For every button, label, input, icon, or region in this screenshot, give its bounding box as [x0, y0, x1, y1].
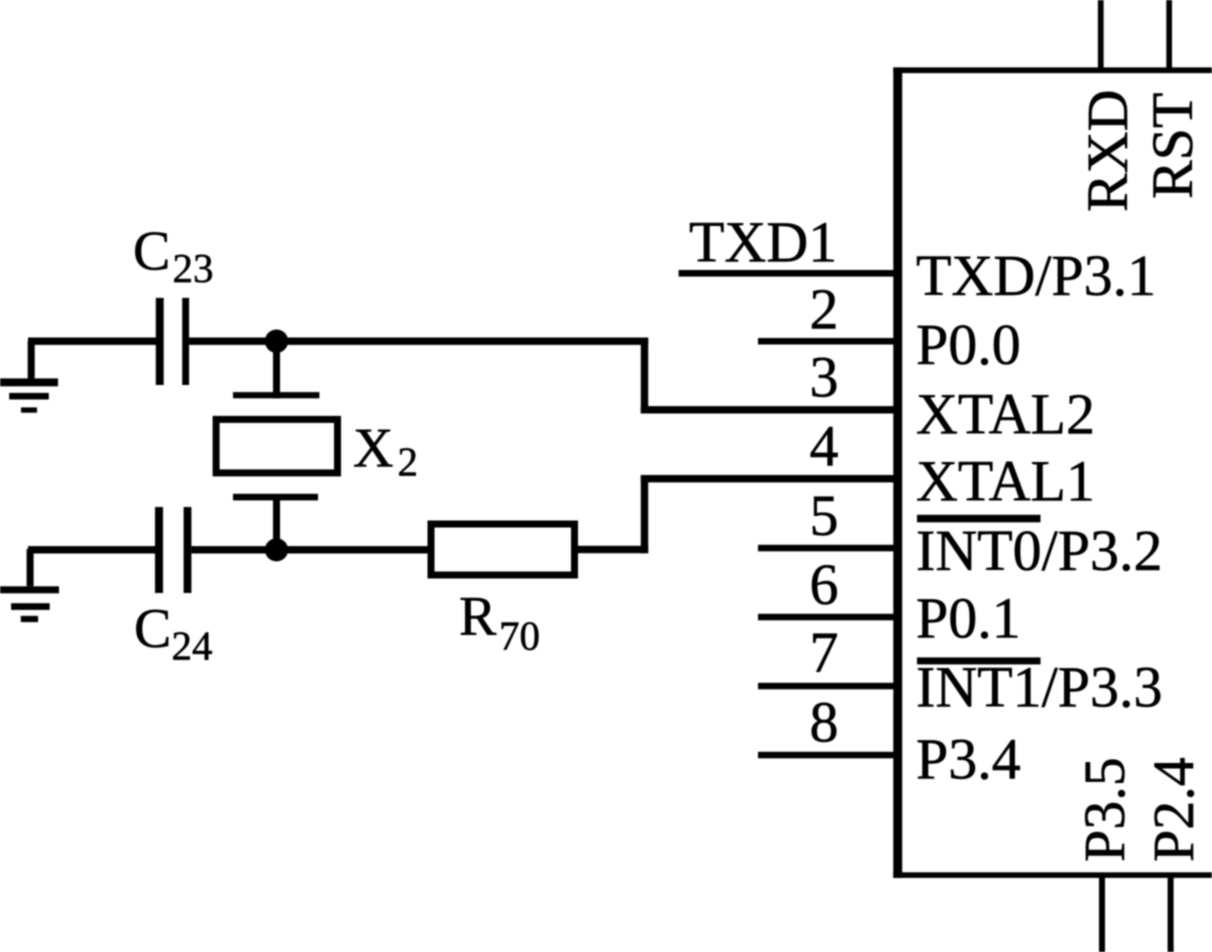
svg-text:P3.5: P3.5	[1072, 757, 1137, 862]
svg-text:6: 6	[810, 552, 839, 617]
svg-text:8: 8	[810, 690, 839, 755]
svg-text:RXD: RXD	[1075, 90, 1140, 212]
overline INT1	[917, 657, 1041, 664]
pin number 4	[810, 414, 839, 479]
svg-text:2: 2	[810, 277, 839, 342]
ground for C24	[0, 549, 59, 622]
wire pin 5 stub	[758, 545, 897, 552]
pin label XTAL1	[916, 449, 1095, 514]
label C24	[134, 598, 213, 669]
pin label RXD	[1075, 90, 1140, 212]
pin number 6	[810, 552, 839, 617]
svg-text:XTAL1: XTAL1	[916, 449, 1095, 514]
wire XTAL1 riser and pin 4	[577, 475, 897, 553]
wire ground to C23	[28, 338, 156, 345]
svg-text:INT1/P3.3: INT1/P3.3	[916, 655, 1163, 720]
pin number 5	[810, 483, 839, 548]
pin label RST	[1140, 93, 1205, 199]
pin label P2.4	[1141, 757, 1206, 862]
wire pin 6 stub	[758, 614, 897, 621]
wire C23 to XTAL2 riser	[189, 338, 648, 345]
svg-text:TXD1: TXD1	[689, 210, 837, 275]
pin label XTAL2	[916, 381, 1095, 446]
pin label P3.5	[1072, 757, 1137, 862]
svg-text:TXD/P3.1: TXD/P3.1	[916, 243, 1156, 308]
wire pin 8 stub	[758, 752, 897, 759]
pin label P0.0	[916, 312, 1021, 377]
crystal X2	[216, 392, 337, 500]
svg-text:4: 4	[810, 414, 839, 479]
pin label TXD/P3.1	[916, 243, 1156, 308]
label C23	[133, 221, 214, 292]
svg-text:P0.1: P0.1	[916, 586, 1021, 651]
svg-text:2: 2	[398, 439, 419, 485]
node junction XTAL2 net	[265, 330, 288, 353]
svg-text:23: 23	[173, 245, 214, 291]
svg-text:24: 24	[172, 623, 213, 669]
wire ground to C24	[28, 546, 155, 553]
svg-text:RST: RST	[1140, 93, 1205, 199]
svg-text:X: X	[353, 418, 393, 480]
pin P2.4 bottom pin wire	[1168, 875, 1174, 952]
wire junction to crystal top	[273, 341, 280, 398]
pin label P0.1	[916, 586, 1021, 651]
pin number 3	[810, 345, 839, 410]
svg-text:INT0/P3.2: INT0/P3.2	[916, 518, 1163, 583]
resistor R70	[431, 524, 575, 575]
svg-text:C: C	[133, 221, 170, 283]
wire pin 1 TXD/P3.1	[679, 270, 898, 277]
wire pin 2 stub	[758, 338, 897, 345]
pin number 7	[810, 620, 839, 685]
wire XTAL2 riser and pin 3	[641, 338, 898, 414]
pin label INT0/P3.2	[916, 518, 1163, 583]
svg-text:XTAL2: XTAL2	[916, 381, 1095, 446]
node junction XTAL1 net	[265, 538, 288, 561]
net label TXD1	[689, 210, 837, 275]
pin label P3.4	[916, 727, 1021, 792]
pin number 2	[810, 277, 839, 342]
IC U1 (microcontroller, partial outline)	[893, 67, 1212, 878]
overline INT0	[917, 515, 1041, 523]
svg-text:3: 3	[810, 345, 839, 410]
svg-text:7: 7	[810, 620, 839, 685]
label R70	[459, 586, 540, 659]
svg-text:70: 70	[499, 613, 540, 659]
pin P3.5 bottom pin wire	[1099, 875, 1105, 952]
svg-text:R: R	[459, 586, 497, 648]
pin RXD top pin wire	[1098, 0, 1104, 73]
pin RST top pin wire	[1166, 0, 1172, 73]
ground for C23	[0, 341, 58, 413]
pin label INT1/P3.3	[916, 655, 1163, 720]
svg-text:5: 5	[810, 483, 839, 548]
svg-text:P0.0: P0.0	[916, 312, 1021, 377]
wire crystal bottom to junction	[273, 500, 280, 550]
svg-text:P2.4: P2.4	[1141, 757, 1206, 862]
capacitor C23	[156, 298, 189, 385]
svg-text:C: C	[134, 598, 171, 660]
svg-text:P3.4: P3.4	[916, 727, 1021, 792]
pin number 8	[810, 690, 839, 755]
wire C24 to resistor	[191, 546, 427, 553]
capacitor C24	[155, 507, 191, 593]
wire pin 7 stub	[758, 683, 897, 690]
label X2	[353, 418, 418, 485]
